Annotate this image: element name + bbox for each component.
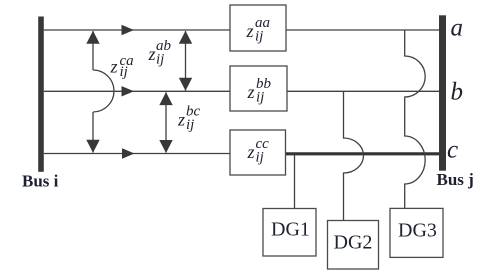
svg-text:ij: ij <box>256 150 264 166</box>
arrowhead on phase c <box>122 148 135 158</box>
svg-text:Bus i: Bus i <box>22 172 59 191</box>
svg-text:Bus j: Bus j <box>437 170 474 189</box>
svg-text:ij: ij <box>120 64 128 80</box>
mutual coupling double arrow z_ij_ab between phase a and phase b <box>179 31 192 91</box>
svg-text:z: z <box>246 21 254 41</box>
wire phase c right thick segment <box>286 152 440 155</box>
svg-text:a: a <box>451 15 464 42</box>
wire phase b left segment <box>44 90 230 92</box>
impedance box Z_ij_cc <box>230 130 286 175</box>
svg-text:ij: ij <box>156 52 164 68</box>
wire phase a left segment <box>44 29 230 31</box>
svg-text:DG2: DG2 <box>334 232 373 254</box>
svg-text:z: z <box>247 82 255 102</box>
svg-text:ij: ij <box>256 90 264 106</box>
mutual coupling double arrow z_ij_bc between phase b and phase c <box>159 92 172 153</box>
arrowhead on phase a <box>122 25 135 35</box>
mutual coupling double arrow z_ij_ca between phase a and phase c with hop over phase b <box>86 31 114 153</box>
wire phase c left segment <box>44 153 230 155</box>
impedance box Z_ij_bb <box>230 66 287 111</box>
svg-text:z: z <box>110 56 118 76</box>
wire DG3 riser from phase a with hops over phase b and phase c <box>405 30 425 208</box>
wire phase b right segment <box>287 90 439 92</box>
svg-text:c: c <box>447 137 458 164</box>
svg-text:b: b <box>451 79 464 106</box>
svg-text:DG1: DG1 <box>271 219 310 241</box>
wire DG1 riser from phase c <box>294 155 296 209</box>
svg-text:ij: ij <box>255 29 263 45</box>
wire phase a right segment <box>286 29 439 31</box>
bus bar Bus j <box>439 15 446 170</box>
svg-text:z: z <box>247 142 255 162</box>
bus bar Bus i <box>38 17 44 172</box>
DG3 box <box>390 208 443 257</box>
impedance box Z_ij_aa <box>230 5 286 51</box>
svg-text:z: z <box>177 110 185 130</box>
label z_ij_ab <box>148 38 172 68</box>
label z_ij_bc <box>177 104 201 134</box>
svg-text:z: z <box>148 44 156 64</box>
label z_ij_ca <box>110 53 134 80</box>
DG1 box <box>263 209 316 257</box>
wire DG2 riser from phase b with hop over phase c <box>344 91 364 220</box>
arrowhead on phase b <box>122 86 135 96</box>
DG2 box <box>328 221 379 270</box>
svg-text:ij: ij <box>186 117 194 133</box>
svg-text:DG3: DG3 <box>398 220 437 242</box>
